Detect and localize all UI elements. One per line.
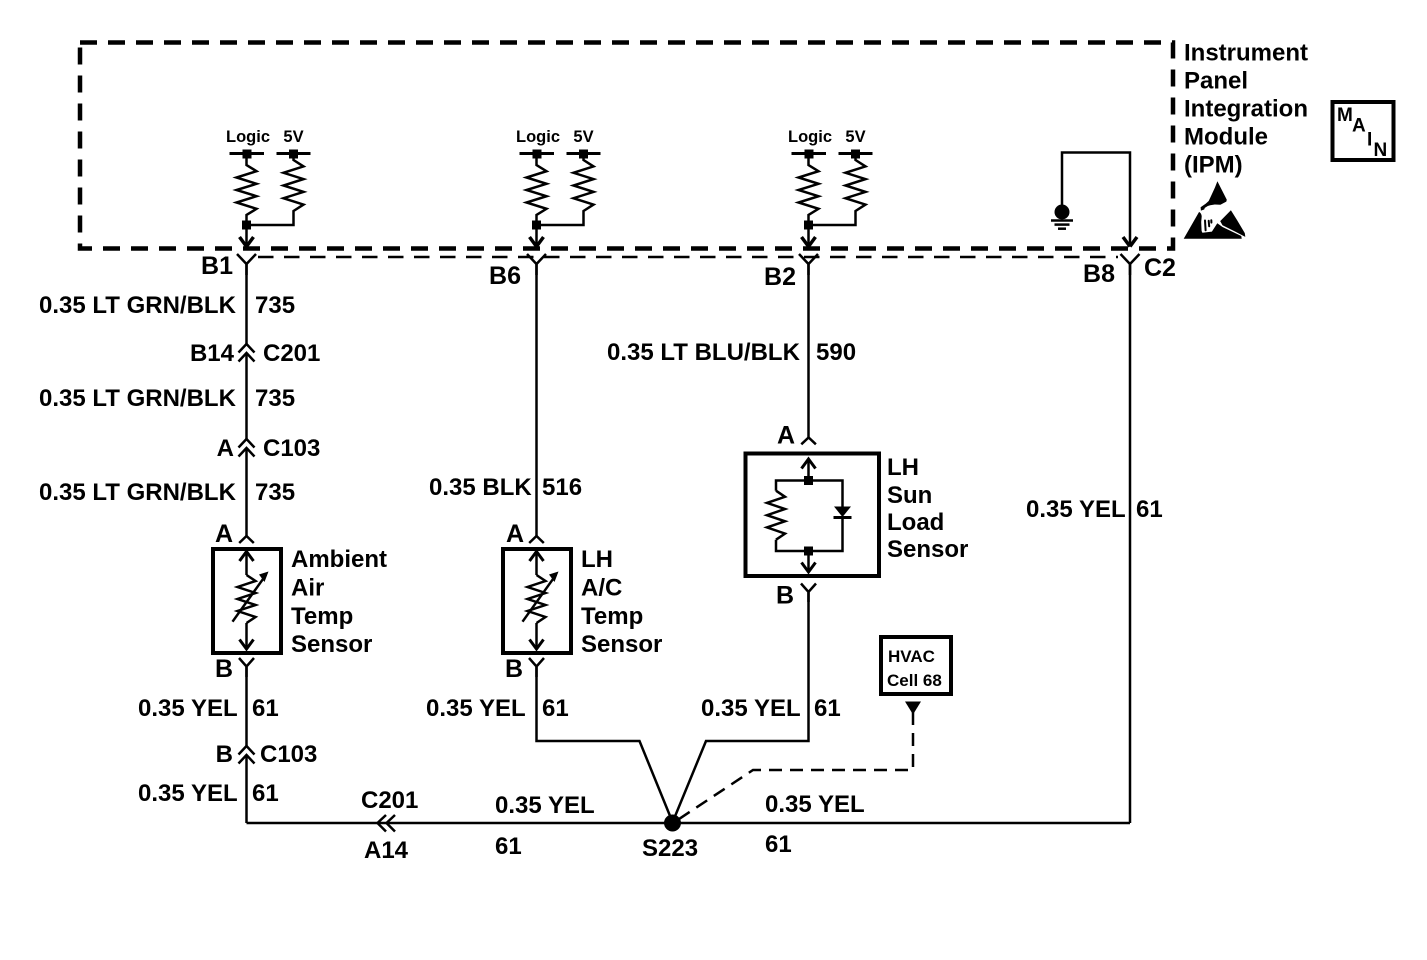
svg-text:0.35 YEL: 0.35 YEL bbox=[426, 695, 526, 722]
resistor from 5V to B2 bbox=[813, 154, 866, 226]
svg-text:61: 61 bbox=[252, 780, 279, 807]
svg-text:0.35 YEL: 0.35 YEL bbox=[495, 792, 595, 819]
svg-text:0.35 BLK: 0.35 BLK bbox=[429, 474, 532, 501]
svg-text:735: 735 bbox=[255, 385, 295, 412]
svg-text:HVAC: HVAC bbox=[888, 647, 935, 666]
svg-text:0.35 YEL: 0.35 YEL bbox=[701, 695, 801, 722]
connector C2 thin dashed line bbox=[258, 256, 1118, 259]
svg-text:S223: S223 bbox=[642, 835, 698, 862]
svg-text:516: 516 bbox=[542, 474, 582, 501]
B1 junction dot bbox=[242, 221, 251, 230]
bottom rail wire to C2 branch bbox=[247, 822, 1131, 825]
B1 pin arrow bbox=[245, 225, 248, 245]
ESD sensitive device warning symbol bbox=[1184, 181, 1246, 239]
svg-text:Temp: Temp bbox=[581, 603, 643, 630]
sensor pin B terminal Y bbox=[801, 584, 816, 603]
svg-text:Ambient: Ambient bbox=[291, 546, 387, 573]
svg-text:590: 590 bbox=[816, 339, 856, 366]
sensor pin A terminal fork bbox=[801, 438, 816, 445]
sun load sensor name bbox=[887, 454, 968, 563]
svg-text:Sensor: Sensor bbox=[291, 631, 372, 658]
svg-text:61: 61 bbox=[765, 831, 792, 858]
svg-text:0.35 LT GRN/BLK: 0.35 LT GRN/BLK bbox=[39, 385, 237, 412]
B1 5V rail bbox=[277, 152, 311, 155]
svg-text:Sensor: Sensor bbox=[887, 536, 968, 563]
svg-text:B: B bbox=[505, 655, 523, 683]
wire B1 to C201 bbox=[245, 264, 248, 344]
B6 5V rail bbox=[567, 152, 601, 155]
wire C103 B down to bottom rail corner bbox=[245, 755, 248, 823]
wire LH A/C sensor B to S223 bbox=[537, 667, 673, 822]
svg-text:A: A bbox=[217, 435, 234, 462]
B8 pin terminal Y bbox=[1121, 254, 1140, 275]
connector C201 pin A14 (left double chevron on bottom rail) bbox=[378, 815, 396, 832]
IPM module name text bbox=[1184, 40, 1308, 179]
B6 pin terminal Y bbox=[527, 254, 546, 275]
svg-text:A/C: A/C bbox=[581, 575, 622, 602]
svg-text:Logic: Logic bbox=[516, 128, 560, 146]
wire C103 to ambient sensor bbox=[245, 448, 248, 536]
svg-text:Sun: Sun bbox=[887, 482, 932, 509]
B2 5V rail bbox=[839, 152, 873, 155]
B8 pin arrow bbox=[1123, 237, 1137, 247]
svg-text:Integration: Integration bbox=[1184, 96, 1308, 123]
sensor pin B terminal Y bbox=[239, 658, 254, 677]
svg-text:I: I bbox=[1367, 130, 1372, 151]
connector C201 pin B14 (double chevron) bbox=[239, 344, 255, 362]
thermistor inside ambient sensor bbox=[233, 552, 269, 650]
wire B6 down to LH A/C temp sensor bbox=[535, 264, 538, 536]
HVAC cell 68 reference box bbox=[881, 637, 951, 694]
B2 pin arrow bbox=[807, 225, 810, 245]
svg-text:LH: LH bbox=[581, 546, 613, 573]
svg-text:C2: C2 bbox=[1144, 254, 1176, 282]
svg-text:B: B bbox=[216, 741, 233, 768]
svg-text:0.35 YEL: 0.35 YEL bbox=[138, 780, 238, 807]
B2 Logic rail bbox=[792, 152, 827, 155]
svg-text:0.35 LT BLU/BLK: 0.35 LT BLU/BLK bbox=[607, 339, 801, 366]
ambient sensor name bbox=[291, 546, 387, 658]
svg-text:Instrument: Instrument bbox=[1184, 40, 1308, 67]
svg-text:0.35 LT GRN/BLK: 0.35 LT GRN/BLK bbox=[39, 292, 237, 319]
svg-text:(IPM): (IPM) bbox=[1184, 152, 1243, 179]
svg-text:0.35 YEL: 0.35 YEL bbox=[1026, 496, 1126, 523]
resistor from 5V to B1 bbox=[251, 154, 304, 226]
resistor from Logic to B6 bbox=[527, 154, 547, 226]
connector C103 pin A (double chevron) bbox=[239, 439, 255, 457]
LH A/C sensor name bbox=[581, 546, 662, 658]
svg-text:LH: LH bbox=[887, 454, 919, 481]
LH A/C temp sensor box bbox=[503, 549, 571, 653]
svg-text:Temp: Temp bbox=[291, 603, 353, 630]
resistor from 5V to B6 bbox=[541, 154, 594, 226]
svg-text:C201: C201 bbox=[361, 787, 418, 814]
B6 Logic rail bbox=[520, 152, 555, 155]
resistor from Logic to B2 bbox=[799, 154, 819, 226]
svg-text:C103: C103 bbox=[260, 741, 317, 768]
wire C2 down right side bbox=[1129, 264, 1132, 823]
thermistor inside LH A/C sensor bbox=[523, 552, 559, 650]
svg-text:Cell 68: Cell 68 bbox=[887, 671, 942, 690]
svg-text:A14: A14 bbox=[364, 837, 409, 864]
sensor pin A terminal fork bbox=[529, 536, 544, 543]
sensor pin A terminal fork bbox=[239, 536, 254, 543]
svg-text:61: 61 bbox=[495, 833, 522, 860]
svg-text:735: 735 bbox=[255, 292, 295, 319]
svg-text:C201: C201 bbox=[263, 340, 320, 367]
ambient air temp sensor box bbox=[213, 549, 281, 653]
svg-text:Sensor: Sensor bbox=[581, 631, 662, 658]
B2 junction dot bbox=[804, 221, 813, 230]
svg-text:Logic: Logic bbox=[226, 128, 270, 146]
svg-text:735: 735 bbox=[255, 479, 295, 506]
svg-text:Panel: Panel bbox=[1184, 68, 1248, 95]
sensor pin B terminal Y bbox=[529, 658, 544, 677]
B2 pin terminal Y bbox=[799, 254, 818, 275]
svg-text:A: A bbox=[1352, 116, 1366, 137]
svg-text:B14: B14 bbox=[190, 340, 235, 367]
B6 pin arrow bbox=[535, 225, 538, 245]
svg-text:N: N bbox=[1374, 140, 1388, 161]
svg-text:61: 61 bbox=[542, 695, 569, 722]
wire C201 to C103 bbox=[245, 353, 248, 439]
svg-text:5V: 5V bbox=[845, 128, 865, 146]
svg-text:M: M bbox=[1337, 105, 1353, 126]
svg-text:0.35 LT GRN/BLK: 0.35 LT GRN/BLK bbox=[39, 479, 237, 506]
svg-text:5V: 5V bbox=[283, 128, 303, 146]
resistor from Logic to B1 bbox=[237, 154, 257, 226]
svg-text:B1: B1 bbox=[201, 252, 233, 280]
IPM module dashed outline box bbox=[80, 43, 1173, 249]
svg-text:B: B bbox=[215, 655, 233, 683]
svg-text:Module: Module bbox=[1184, 124, 1268, 151]
sun load sensor internals bbox=[767, 459, 852, 572]
LH sun load sensor box bbox=[746, 454, 880, 577]
svg-text:61: 61 bbox=[1136, 496, 1163, 523]
HVAC dashed reference wire bbox=[905, 702, 921, 715]
svg-text:C103: C103 bbox=[263, 435, 320, 462]
svg-text:61: 61 bbox=[814, 695, 841, 722]
svg-text:A: A bbox=[215, 520, 233, 548]
svg-text:Logic: Logic bbox=[788, 128, 832, 146]
svg-text:Air: Air bbox=[291, 575, 324, 602]
B1 pin terminal Y bbox=[237, 254, 256, 275]
wire ambient sensor B to C103 bbox=[245, 667, 248, 746]
svg-text:0.35 YEL: 0.35 YEL bbox=[765, 791, 865, 818]
wire B2 down to sun load sensor bbox=[807, 264, 810, 438]
connector C103 pin B (double chevron) bbox=[239, 746, 255, 764]
ground ball symbol bbox=[1055, 205, 1070, 220]
svg-text:B: B bbox=[776, 582, 794, 610]
svg-text:A: A bbox=[506, 520, 524, 548]
splice S223 bbox=[664, 815, 681, 832]
svg-text:61: 61 bbox=[252, 695, 279, 722]
svg-text:B8: B8 bbox=[1083, 260, 1115, 288]
svg-text:5V: 5V bbox=[573, 128, 593, 146]
B1 Logic rail bbox=[230, 152, 265, 155]
B6 junction dot bbox=[532, 221, 541, 230]
svg-text:B2: B2 bbox=[764, 263, 796, 291]
MAIN power distribution logo box bbox=[1333, 102, 1394, 161]
svg-text:Load: Load bbox=[887, 509, 944, 536]
svg-text:B6: B6 bbox=[489, 262, 521, 290]
svg-text:0.35 YEL: 0.35 YEL bbox=[138, 695, 238, 722]
svg-text:A: A bbox=[777, 422, 795, 450]
internal ground wire bbox=[1062, 153, 1130, 246]
wire sun load sensor B to S223 bbox=[674, 593, 809, 821]
